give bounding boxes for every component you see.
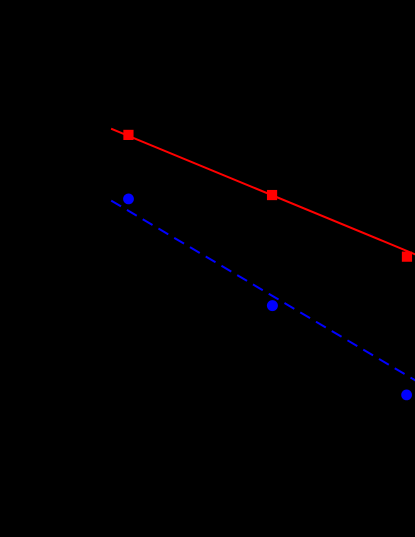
blue circle marker 2	[267, 300, 278, 311]
blue circle marker 3	[401, 390, 412, 401]
red square marker 2	[267, 190, 277, 200]
red square marker 3	[402, 252, 412, 262]
blue circle marker 1	[123, 194, 134, 205]
red fit line (solid)	[111, 129, 415, 255]
blue fit line (dashed)	[111, 201, 415, 382]
red square marker 1	[123, 130, 133, 140]
